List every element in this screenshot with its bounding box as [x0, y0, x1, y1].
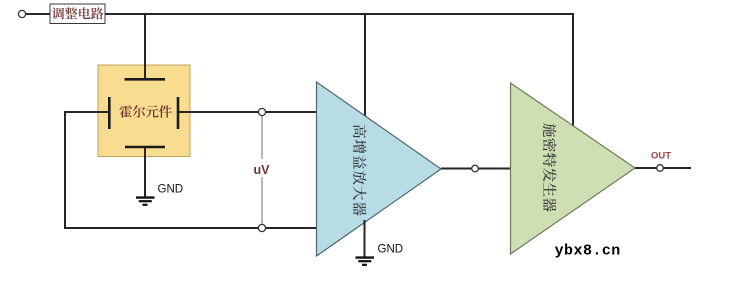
svg-text:ybx8.cn: ybx8.cn — [555, 243, 621, 260]
svg-text:OUT: OUT — [651, 151, 671, 162]
svg-text:GND: GND — [158, 183, 184, 195]
svg-text:uV: uV — [254, 163, 271, 177]
svg-text:GND: GND — [378, 244, 404, 256]
